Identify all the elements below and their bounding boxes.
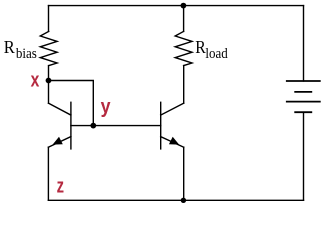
wire top rail: [49, 5, 304, 7]
svg-text:R: R: [195, 37, 206, 57]
wire R_bias bottom to node x: [48, 66, 50, 81]
svg-text:y: y: [101, 96, 112, 118]
bottom junction dot: [181, 198, 186, 203]
transistor Q2: [161, 102, 184, 149]
svg-text:z: z: [57, 176, 64, 198]
top junction dot: [181, 3, 187, 9]
wire Q1 emitter to bottom rail: [47, 147, 49, 200]
wire node x to Q1 collector: [48, 81, 50, 104]
resistor R_bias: [40, 31, 57, 65]
svg-text:x: x: [31, 69, 40, 91]
wire Q2 collector to R_load: [183, 66, 185, 104]
wire R_load top to top rail: [183, 6, 185, 32]
transistor Q1: [48, 102, 93, 149]
node x junction dot: [46, 78, 52, 84]
resistor R_load: [175, 31, 192, 65]
label R_load: [195, 37, 228, 62]
wire top rail to battery: [303, 6, 305, 81]
node y junction dot: [90, 123, 96, 129]
svg-text:R: R: [4, 37, 15, 57]
label R_bias: [4, 37, 37, 62]
wire battery to bottom rail: [303, 112, 305, 200]
wire base rail node y to Q2: [93, 125, 160, 127]
svg-text:load: load: [205, 46, 228, 62]
svg-text:bias: bias: [16, 46, 37, 62]
wire top-left drop to R_bias: [48, 6, 50, 32]
wire node x to node y: [49, 81, 94, 126]
wire Q2 emitter to bottom rail: [183, 147, 185, 200]
wire bottom rail: [48, 199, 303, 201]
battery V1: [287, 81, 320, 112]
